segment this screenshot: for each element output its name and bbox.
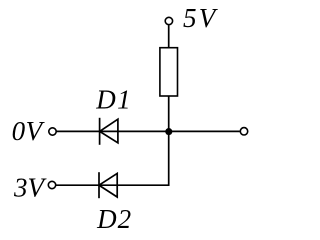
svg-text:D2: D2 [96, 204, 132, 234]
svg-text:0V: 0V [12, 116, 46, 146]
svg-text:D1: D1 [95, 85, 132, 115]
diode D2 (cathode bar + anode triangle) [99, 172, 117, 198]
terminal output (open circle) [240, 128, 247, 135]
terminal 5V (open circle) [165, 17, 172, 24]
wire: 3V terminal through D2 to corner [56, 184, 169, 186]
wire: node A to output terminal [169, 130, 240, 132]
terminal 0V (open circle) [49, 128, 56, 135]
svg-text:5V: 5V [183, 3, 219, 33]
node A (junction dot) [165, 128, 172, 135]
wire: corner up to node A [168, 132, 170, 187]
wire: resistor bottom to node A [168, 96, 170, 132]
wire: 5V terminal to resistor top [168, 25, 170, 48]
wire: 0V terminal through D1 to node A [56, 130, 167, 132]
terminal 3V (open circle) [48, 181, 55, 188]
svg-text:3V: 3V [13, 172, 48, 202]
diode D1 (cathode bar + anode triangle) [100, 118, 118, 145]
resistor R1 (rectangle body) [160, 48, 178, 96]
